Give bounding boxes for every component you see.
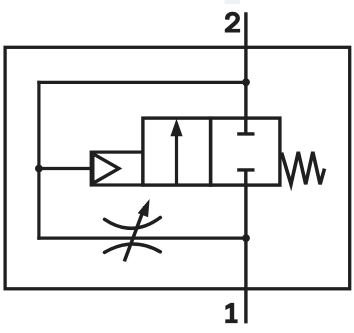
return spring — [282, 152, 325, 184]
blocked port bottom bar — [237, 168, 254, 171]
pilot branch wire — [39, 167, 93, 170]
valve body left square — [143, 118, 211, 185]
node junction top (dot) — [242, 78, 250, 86]
port 1 label — [225, 303, 237, 323]
port 2 label — [225, 12, 240, 33]
node junction left (dot) — [35, 165, 43, 173]
throttle top arc — [105, 218, 161, 229]
wire bottom horizontal — [37, 237, 246, 240]
flow arrow head — [170, 119, 182, 137]
wire left vertical — [37, 81, 40, 240]
wire top horizontal — [37, 81, 246, 84]
pilot triangle — [93, 154, 119, 184]
node junction bottom (dot) — [242, 234, 250, 242]
pilot box — [91, 152, 143, 185]
top smudge artifact — [225, 0, 241, 4]
throttle adjustment arrow head — [138, 199, 150, 217]
blocked port top stub — [244, 118, 247, 134]
blocked port bottom stub — [244, 170, 247, 185]
flow arrow shaft (left square) — [175, 134, 178, 184]
enclosure box — [5, 47, 350, 288]
throttle bottom arc — [105, 244, 161, 252]
port 2 wire (vertical from top into valve) — [244, 12, 247, 120]
throttle adjustment arrow shaft — [124, 207, 145, 262]
valve body right square — [211, 118, 280, 185]
blocked port top bar — [237, 132, 254, 135]
port 1 wire (vertical from valve to bottom) — [244, 185, 247, 323]
